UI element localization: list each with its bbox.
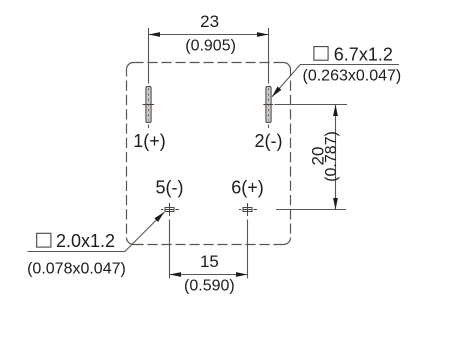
svg-text:6.7x1.2: 6.7x1.2 (334, 44, 393, 64)
svg-text:23: 23 (200, 12, 219, 31)
relay body outline (dashed rounded rect) (127, 63, 291, 245)
svg-text:(0.078x0.047): (0.078x0.047) (27, 261, 126, 278)
svg-text:5(-): 5(-) (156, 178, 184, 198)
leader line for 6.7x1.2 slot callout (272, 65, 399, 97)
svg-text:(0.263x0.047): (0.263x0.047) (303, 67, 402, 84)
terminal 1 slot (143, 87, 155, 123)
svg-text:(0.590): (0.590) (184, 278, 235, 295)
extension line 20-bottom (276, 209, 346, 211)
extension line, terminal 1 centerline (148, 28, 150, 128)
svg-text:2(-): 2(-) (255, 131, 283, 151)
square symbol for 6.7x1.2 (314, 47, 328, 61)
terminal 2 slot (263, 87, 273, 123)
square symbol for 2.0x1.2 (37, 233, 51, 247)
svg-text:(0.905): (0.905) (185, 38, 236, 55)
dimension line 23 (top) (149, 32, 269, 37)
extension line, terminal 6 (vertical) (247, 220, 249, 279)
extension line, terminal 2 centerline (268, 28, 270, 128)
svg-text:1(+): 1(+) (133, 131, 166, 151)
svg-text:(0.787): (0.787) (323, 131, 340, 182)
terminal 6 pad (239, 203, 257, 216)
svg-text:2.0x1.2: 2.0x1.2 (56, 231, 115, 251)
extension line 20-top (275, 104, 348, 106)
terminal 5 pad (161, 203, 179, 216)
leader line for 2.0x1.2 pad callout (28, 212, 165, 252)
svg-text:15: 15 (200, 252, 219, 271)
dimension line 20 (right, vertical) (333, 105, 338, 210)
dimension line 15 (bottom) (170, 272, 248, 277)
svg-text:6(+): 6(+) (231, 178, 264, 198)
extension line, terminal 5 (vertical) (169, 220, 171, 279)
